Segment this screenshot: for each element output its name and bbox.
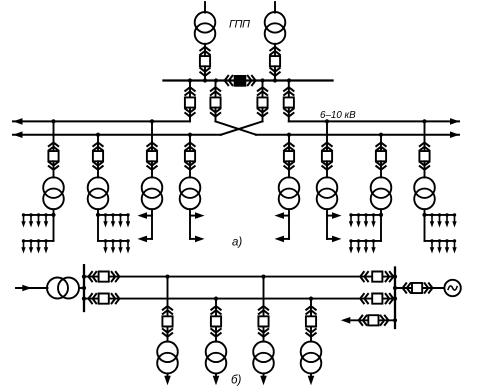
right bus node y=288	[393, 286, 397, 290]
svg-text:ГПП: ГПП	[229, 19, 250, 31]
wire trunk to feeder 1 breaker	[53, 121, 55, 151]
secondary riser feeder 7	[380, 209, 382, 241]
reserve breaker	[368, 315, 378, 325]
trunk tap node feeder б1	[165, 275, 169, 279]
upper outgoing feeder group (comb) feeder 8	[425, 213, 457, 227]
withdrawable contact upper feeder 4	[185, 143, 194, 151]
svg-text:б): б)	[231, 375, 241, 387]
withdrawable contact upper feeder 7	[376, 143, 385, 151]
wire bus to trunk breaker x=215.5	[215, 81, 217, 98]
distribution transformer feeder б2	[206, 342, 227, 374]
wire breaker T1 to bus	[204, 66, 206, 80]
withdrawable contact lower feeder б2	[211, 329, 220, 337]
arrow on incoming line (б)	[22, 285, 32, 292]
circuit breaker of T2	[270, 56, 280, 66]
junction node upper comb feeder 7	[379, 213, 383, 217]
supply line to transformer T1	[204, 2, 206, 13]
trunk tap node feeder 4	[188, 133, 192, 137]
trunk line (б) y=276.6	[84, 276, 395, 278]
withdrawable contact lower (trunk feeder x=288.8)	[284, 109, 293, 117]
withdrawable contact upper (trunk feeder x=215.5)	[211, 87, 220, 95]
trunk line upper-right	[289, 120, 459, 122]
upper outgoing feeder group (comb) feeder 1	[21, 213, 53, 227]
generator G	[444, 280, 460, 296]
withdrawable contact below breaker T2	[270, 68, 279, 76]
feeder 2 breaker	[93, 151, 103, 161]
lower outgoing feeder group (comb) feeder 1	[21, 239, 53, 253]
withdrawable contact upper feeder б4	[306, 306, 315, 314]
wire trunk to feeder 3 breaker	[151, 121, 153, 151]
bus junction node x=205	[203, 78, 207, 82]
upper branch arrow right feeder 6	[327, 215, 335, 217]
junction node upper comb feeder 2	[96, 213, 100, 217]
left bus node y=298.6	[82, 297, 86, 301]
upper outgoing feeder group (comb) feeder 2	[98, 213, 130, 227]
distribution transformer feeder 5	[279, 177, 300, 209]
svg-text:а): а)	[232, 237, 242, 249]
feeder б3 breaker	[258, 316, 268, 326]
lower branch arrow left feeder 5	[282, 238, 290, 240]
withdrawable contact above breaker T2	[270, 47, 279, 55]
withdrawable contact lower feeder 6	[322, 162, 331, 170]
feeder 7 breaker	[376, 151, 386, 161]
bus junction node x=190	[188, 78, 192, 82]
tie breaker right contact	[248, 76, 256, 85]
outgoing arrow feeder б2	[215, 373, 217, 377]
tail breaker right y=298.6	[372, 294, 382, 304]
generator feed line (б)	[395, 287, 444, 289]
bus section 1 (6-10 kV)	[164, 79, 234, 81]
right contact of generator breaker	[425, 283, 433, 292]
withdrawable contact upper feeder 5	[284, 143, 293, 151]
wire breaker to transformer feeder б1	[167, 327, 169, 342]
wire breaker T2 to bus	[274, 66, 276, 80]
wire breaker to transformer feeder б4	[310, 327, 312, 342]
withdrawable contact below breaker T1	[200, 68, 209, 76]
feeder б2 breaker	[211, 316, 221, 326]
lower branch arrow left feeder 3	[145, 238, 153, 240]
outgoing arrow feeder б4	[310, 373, 312, 377]
withdrawable contact lower feeder 4	[185, 162, 194, 170]
withdrawable contact upper feeder 1	[49, 143, 58, 151]
trunk line lower-left	[13, 134, 221, 136]
bus section 2 (6-10 kV)	[247, 79, 333, 81]
wire T1 to breaker	[204, 44, 206, 56]
arrow end upper-left trunk	[13, 118, 23, 125]
wire breaker to transformer feeder 2	[97, 161, 99, 177]
left bus node y=288	[82, 286, 86, 290]
wire T2 to breaker	[274, 44, 276, 56]
left bus node y=276.6	[82, 275, 86, 279]
feeder б1 breaker	[162, 316, 172, 326]
arrow end lower-right trunk	[450, 131, 460, 138]
withdrawable contact upper (trunk feeder x=262.5)	[258, 87, 267, 95]
reserve line from right bus	[349, 319, 395, 321]
withdrawable contact upper feeder 8	[420, 143, 429, 151]
trunk tap node feeder 6	[325, 119, 329, 123]
wire breaker to transformer feeder 6	[326, 161, 328, 177]
trunk tap node feeder 1	[51, 119, 55, 123]
withdrawable contact upper feeder б2	[211, 306, 220, 314]
wire breaker to transformer feeder б3	[263, 327, 265, 342]
secondary riser feeder 2	[97, 209, 99, 241]
secondary riser feeder 4	[189, 209, 191, 239]
wire breaker to trunk x=190	[189, 108, 191, 122]
feeder 5 breaker	[284, 151, 294, 161]
wire trunk to feeder 2 breaker	[97, 135, 99, 152]
bus junction node x=275	[273, 78, 277, 82]
lower outgoing feeder group (comb) feeder 7	[349, 239, 381, 253]
tie breaker left contact	[225, 76, 233, 85]
distribution transformer feeder 1	[43, 177, 64, 209]
bus junction node x=289	[287, 78, 291, 82]
bus junction node x=262.5	[260, 78, 264, 82]
trunk feeder breaker x=215.5	[210, 97, 220, 107]
trunk tap node feeder 7	[379, 133, 383, 137]
transformer T1 (ГПП)	[195, 12, 216, 44]
lower outgoing feeder group (comb) feeder 2	[98, 239, 130, 253]
crossover diagonal from right section	[221, 121, 263, 134]
wire transformer to left bus (б)	[79, 287, 84, 289]
wire breaker to transformer feeder 3	[151, 161, 153, 177]
right bus bar (б)	[394, 268, 396, 329]
wire breaker to trunk x=215.5	[215, 108, 217, 122]
secondary riser feeder 5	[288, 209, 290, 239]
withdrawable contact upper (trunk feeder x=288.8)	[284, 87, 293, 95]
wire breaker to transformer feeder 7	[380, 161, 382, 177]
distribution transformer feeder 8	[414, 177, 435, 209]
secondary riser feeder 8	[424, 209, 426, 241]
upper branch arrow left feeder 5	[282, 215, 290, 217]
feeder 6 breaker	[322, 151, 332, 161]
withdrawable contact lower feeder б1	[163, 329, 172, 337]
distribution transformer feeder б4	[301, 342, 322, 374]
trunk feeder breaker x=190	[185, 97, 195, 107]
trunk tap node feeder 5	[287, 133, 291, 137]
wire trunk to breaker feeder б3	[263, 277, 265, 317]
generator breaker	[412, 283, 422, 293]
arrow end upper-right trunk	[450, 118, 460, 125]
trunk feeder breaker x=262.5	[257, 97, 267, 107]
lower branch arrow right feeder 4	[190, 238, 198, 240]
outgoing arrow feeder б3	[263, 373, 265, 377]
wire bus to trunk breaker x=190	[189, 81, 191, 98]
right contact of head breaker y=276.6	[112, 272, 120, 281]
withdrawable contact lower (trunk feeder x=215.5)	[211, 109, 220, 117]
distribution transformer feeder б1	[157, 342, 178, 374]
junction node upper comb feeder 1	[51, 213, 55, 217]
secondary riser feeder 3	[151, 209, 153, 239]
left contact of head breaker y=276.6	[88, 272, 96, 281]
withdrawable contact lower feeder 3	[147, 162, 156, 170]
trunk line upper-left	[13, 120, 190, 122]
wire trunk to breaker feeder б2	[215, 299, 217, 317]
feeder 1 breaker	[48, 151, 58, 161]
withdrawable contact lower feeder 2	[93, 162, 102, 170]
arrow end lower-left trunk	[13, 131, 23, 138]
supply line to transformer T2	[274, 2, 276, 13]
head breaker left y=298.6	[99, 294, 109, 304]
trunk tap node feeder 8	[422, 119, 426, 123]
right contact of head breaker y=298.6	[112, 294, 120, 303]
arrow end reserve line	[341, 317, 351, 324]
circuit breaker of T1	[200, 56, 210, 66]
withdrawable contact upper feeder б1	[163, 306, 172, 314]
wire bus to trunk breaker x=288.8	[288, 81, 290, 98]
wire breaker to transformer feeder 1	[53, 161, 55, 177]
left contact of generator breaker	[403, 283, 411, 292]
withdrawable contact lower feeder 5	[284, 162, 293, 170]
withdrawable contact upper feeder 2	[93, 143, 102, 151]
left bus bar (б)	[83, 265, 85, 311]
left contact of tail breaker y=298.6	[360, 294, 368, 303]
trunk feeder breaker x=288.8	[284, 97, 294, 107]
withdrawable contact upper feeder 6	[322, 143, 331, 151]
bus junction node x=216	[214, 78, 218, 82]
svg-text:6–10 кВ: 6–10 кВ	[320, 110, 356, 121]
distribution transformer feeder 3	[142, 177, 163, 209]
wire trunk to feeder 6 breaker	[326, 121, 328, 151]
withdrawable contact upper feeder 3	[147, 143, 156, 151]
distribution transformer feeder 2	[88, 177, 109, 209]
trunk line (б) y=298.6	[84, 298, 395, 300]
distribution transformer feeder б3	[253, 342, 274, 374]
right bus node y=320.3	[393, 318, 397, 322]
transformer T2 (ГПП)	[265, 12, 286, 44]
left contact of head breaker y=298.6	[88, 294, 96, 303]
withdrawable contact upper feeder б3	[259, 306, 268, 314]
right contact of tail breaker y=276.6	[386, 272, 394, 281]
feeder 3 breaker	[147, 151, 157, 161]
withdrawable contact lower feeder 1	[49, 162, 58, 170]
secondary riser feeder 1	[53, 209, 55, 241]
wire breaker to transformer feeder б2	[215, 327, 217, 342]
trunk line lower-right	[256, 134, 459, 136]
lower branch arrow right feeder 6	[327, 238, 335, 240]
left contact of reserve breaker	[359, 316, 367, 325]
wire trunk to feeder 7 breaker	[380, 135, 382, 152]
tail breaker right y=276.6	[372, 272, 382, 282]
wire bus to trunk breaker x=262.5	[262, 81, 264, 98]
distribution transformer feeder 4	[180, 177, 201, 209]
right bus node y=276.6	[393, 275, 397, 279]
junction node upper comb feeder 8	[422, 213, 426, 217]
trunk tap node feeder б4	[309, 297, 313, 301]
incoming supply line (б)	[16, 287, 48, 289]
bus tie breaker (normally open)	[234, 75, 247, 87]
wire breaker to trunk x=288.8	[288, 108, 290, 122]
withdrawable contact lower feeder 8	[420, 162, 429, 170]
trunk tap node feeder б3	[261, 275, 265, 279]
wire breaker to trunk x=262.5	[262, 108, 264, 122]
wire breaker to transformer feeder 5	[288, 161, 290, 177]
secondary riser feeder 6	[326, 209, 328, 239]
wire breaker to transformer feeder 4	[189, 161, 191, 177]
right contact of tail breaker y=298.6	[386, 294, 394, 303]
wire trunk to feeder 8 breaker	[424, 121, 426, 151]
crossover diagonal from left section	[216, 121, 257, 134]
left contact of tail breaker y=276.6	[360, 272, 368, 281]
trunk tap node feeder 3	[150, 119, 154, 123]
wire trunk to feeder 4 breaker	[189, 135, 191, 152]
withdrawable contact above breaker T1	[200, 47, 209, 55]
lower outgoing feeder group (comb) feeder 8	[425, 239, 457, 253]
distribution transformer feeder 7	[371, 177, 392, 209]
wire breaker to transformer feeder 8	[424, 161, 426, 177]
upper outgoing feeder group (comb) feeder 7	[349, 213, 381, 227]
right contact of reserve breaker	[381, 316, 389, 325]
trunk tap node feeder б2	[214, 297, 218, 301]
wire trunk to breaker feeder б4	[310, 299, 312, 317]
withdrawable contact lower (trunk feeder x=262.5)	[258, 109, 267, 117]
wire trunk to breaker feeder б1	[167, 277, 169, 317]
withdrawable contact lower feeder б4	[306, 329, 315, 337]
outgoing arrow feeder б1	[167, 373, 169, 377]
upper branch arrow left feeder 3	[145, 215, 153, 217]
right bus node y=298.6	[393, 297, 397, 301]
feeder б4 breaker	[306, 316, 316, 326]
withdrawable contact lower feeder б3	[259, 329, 268, 337]
feeder 8 breaker	[419, 151, 429, 161]
distribution transformer feeder 6	[317, 177, 338, 209]
step-down transformer (б)	[47, 278, 79, 299]
withdrawable contact upper (trunk feeder x=190)	[185, 87, 194, 95]
withdrawable contact lower (trunk feeder x=190)	[185, 109, 194, 117]
head breaker left y=276.6	[99, 272, 109, 282]
feeder 4 breaker	[185, 151, 195, 161]
withdrawable contact lower feeder 7	[376, 162, 385, 170]
wire trunk to feeder 5 breaker	[288, 135, 290, 152]
trunk tap node feeder 2	[96, 133, 100, 137]
upper branch arrow right feeder 4	[190, 215, 198, 217]
